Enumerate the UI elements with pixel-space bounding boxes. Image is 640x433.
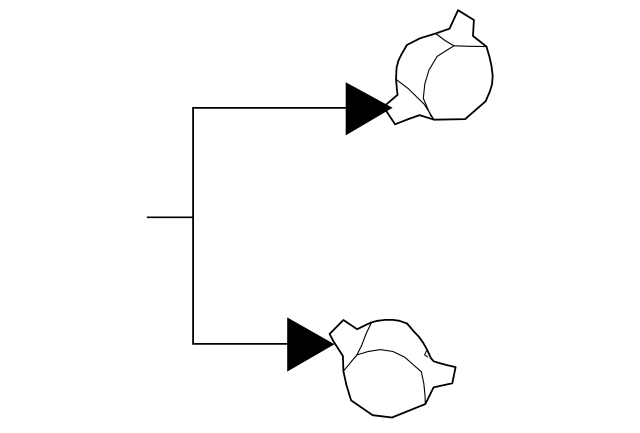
vertical bus wire [192, 108, 194, 344]
top rock interior edge (horizontal) [454, 45, 488, 48]
arrowhead (top buffer) [346, 82, 393, 135]
bottom rock small facet spur [425, 351, 428, 358]
top rock interior edge (front vertical curve) [423, 34, 454, 120]
bottom rock interior edge (long diagonal) [343, 322, 371, 371]
arrowhead (bottom buffer) [287, 317, 334, 371]
bottom rock shape outline [330, 320, 456, 418]
bottom branch wire [192, 343, 288, 345]
top rock shape outline [384, 10, 493, 124]
top rock interior edge (long diagonal) [396, 79, 434, 119]
top branch wire [192, 107, 346, 109]
bottom rock interior edge (front curve) [357, 350, 425, 405]
input wire [147, 216, 193, 218]
